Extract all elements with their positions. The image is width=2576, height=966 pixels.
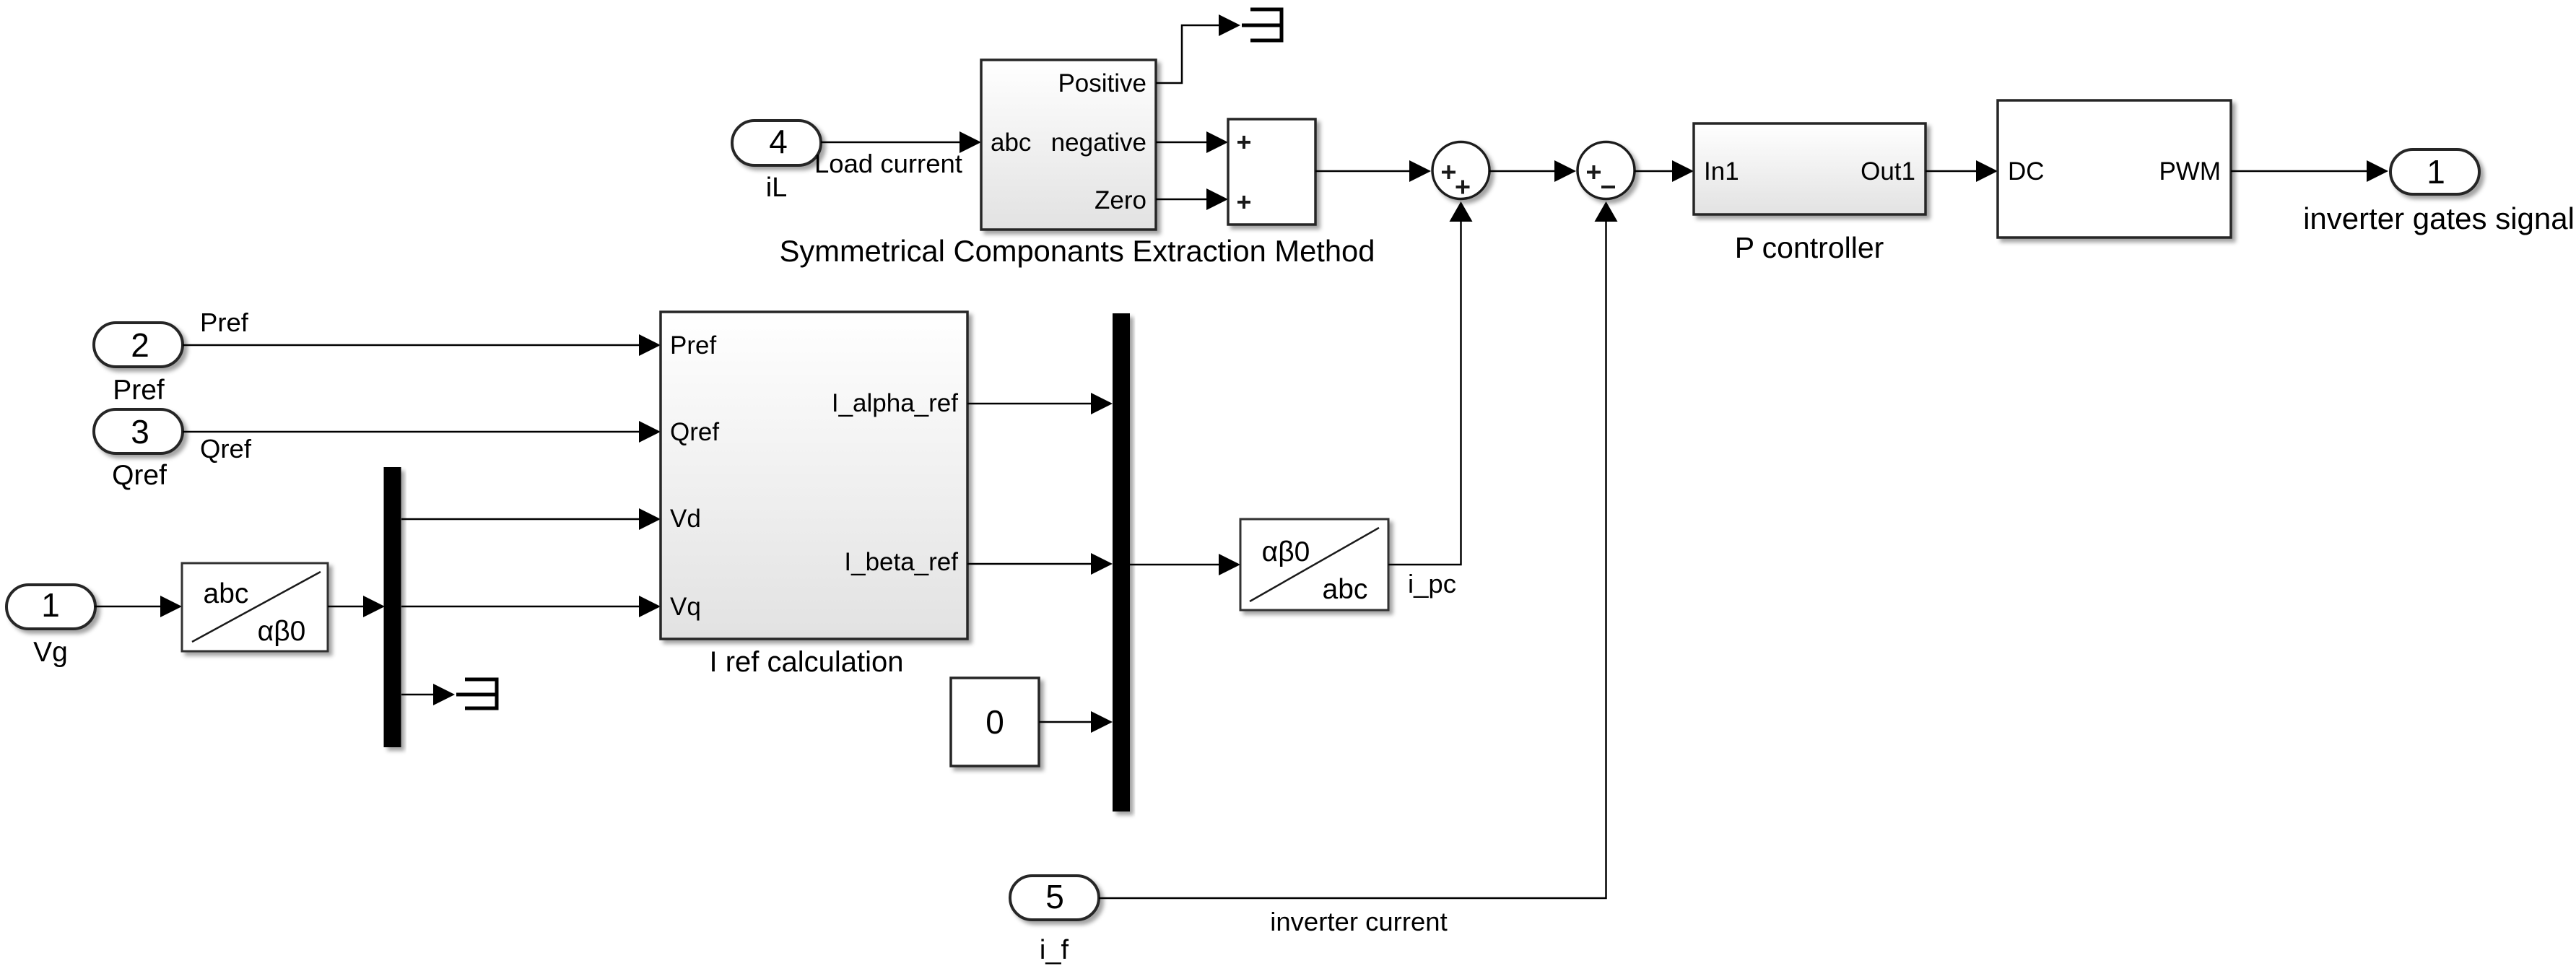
wire Positive to terminator bbox=[1156, 14, 1240, 83]
subsystem P controller bbox=[1694, 123, 1926, 264]
outport 1 (inverter gates signal) bbox=[2303, 149, 2575, 235]
svg-text:negative: negative bbox=[1051, 129, 1146, 157]
svg-text:PWM: PWM bbox=[2159, 157, 2221, 186]
wire demux to terminator 2 bbox=[401, 684, 455, 705]
svg-text:In1: In1 bbox=[1704, 157, 1739, 186]
svg-text:inverter current: inverter current bbox=[1270, 907, 1447, 936]
svg-text:Positive: Positive bbox=[1058, 69, 1146, 97]
svg-text:Qref: Qref bbox=[200, 434, 252, 464]
subsystem Symmetrical Componants Extraction Method bbox=[780, 60, 1375, 268]
svg-text:i_pc: i_pc bbox=[1408, 569, 1456, 599]
wire Vg to abc-alphabeta0 bbox=[95, 596, 182, 617]
mux bar bbox=[1113, 313, 1130, 811]
transform block abc to alphabeta0 bbox=[182, 563, 328, 651]
inport 1 (Vg) bbox=[6, 585, 95, 668]
wire sum circle 1 to sum circle 2 bbox=[1489, 160, 1577, 182]
svg-text:αβ0: αβ0 bbox=[258, 616, 306, 647]
transform block alphabeta0 to abc, label i_pc bbox=[1240, 519, 1456, 610]
svg-text:αβ0: αβ0 bbox=[1262, 536, 1310, 567]
terminator (demux third output) bbox=[456, 679, 497, 708]
wire sum circle 2 to P controller bbox=[1635, 160, 1694, 182]
svg-text:DC: DC bbox=[2008, 157, 2045, 186]
svg-text:Qref: Qref bbox=[670, 418, 719, 446]
sum circle 1 (+ +) bbox=[1432, 142, 1489, 199]
svg-text:Pref: Pref bbox=[200, 308, 249, 337]
inport 4 (iL) bbox=[732, 121, 821, 203]
svg-text:5: 5 bbox=[1045, 878, 1064, 915]
svg-text:I_alpha_ref: I_alpha_ref bbox=[832, 389, 958, 417]
inport 3 (Qref) bbox=[94, 409, 183, 491]
svg-text:abc: abc bbox=[991, 129, 1031, 157]
svg-text:abc: abc bbox=[1323, 574, 1368, 605]
svg-text:1: 1 bbox=[2427, 153, 2445, 191]
svg-text:abc: abc bbox=[204, 578, 249, 609]
wire sum to sum circle 1 bbox=[1315, 160, 1431, 182]
terminator (top) bbox=[1242, 9, 1282, 40]
wire i_pc to sum circle 1 bottom bbox=[1388, 201, 1473, 565]
sum block (rect ++) bbox=[1228, 119, 1315, 225]
svg-text:i_f: i_f bbox=[1040, 935, 1069, 965]
svg-text:1: 1 bbox=[41, 586, 60, 624]
svg-text:Zero: Zero bbox=[1095, 186, 1146, 214]
svg-text:Pref: Pref bbox=[670, 331, 716, 360]
svg-text:Load current: Load current bbox=[814, 149, 962, 178]
wire Zero to sum bbox=[1156, 188, 1228, 210]
wire demux to Vd bbox=[401, 508, 661, 530]
wire I_beta_ref to mux bbox=[967, 553, 1113, 575]
svg-text:0: 0 bbox=[985, 703, 1004, 741]
svg-text:Vd: Vd bbox=[670, 505, 701, 533]
svg-text:inverter gates signal: inverter gates signal bbox=[2303, 201, 2575, 235]
constant 0 bbox=[951, 678, 1039, 766]
svg-text:I_beta_ref: I_beta_ref bbox=[844, 548, 958, 576]
wire iL to SCEM abc, label Load current bbox=[814, 131, 981, 178]
subsystem I ref calculation bbox=[661, 312, 967, 678]
sum circle 2 (+ -) bbox=[1578, 142, 1635, 199]
wire PWM to outport bbox=[2231, 160, 2388, 182]
svg-text:Vq: Vq bbox=[670, 593, 701, 621]
svg-text:Pref: Pref bbox=[113, 375, 165, 406]
demux bar bbox=[384, 467, 401, 747]
subsystem DC-PWM bbox=[1998, 100, 2231, 238]
wire demux to Vq bbox=[401, 596, 661, 617]
wire Qref to I ref calculation, label Qref bbox=[183, 421, 661, 464]
svg-text:3: 3 bbox=[131, 413, 149, 451]
svg-text:4: 4 bbox=[769, 123, 788, 160]
svg-text:Out1: Out1 bbox=[1861, 157, 1915, 186]
wire I_alpha_ref to mux bbox=[967, 393, 1113, 414]
svg-text:I ref calculation: I ref calculation bbox=[709, 646, 903, 678]
wire Pref to I ref calculation, label Pref bbox=[183, 308, 661, 356]
svg-text:2: 2 bbox=[131, 326, 149, 364]
wire negative to sum bbox=[1156, 131, 1228, 153]
svg-text:Vg: Vg bbox=[33, 637, 68, 668]
svg-text:Symmetrical Componants Extract: Symmetrical Componants Extraction Method bbox=[780, 234, 1375, 268]
svg-text:P controller: P controller bbox=[1735, 231, 1884, 264]
wire mux to alphabeta0-abc bbox=[1130, 554, 1240, 575]
inport 5 (i_f) bbox=[1010, 876, 1099, 965]
inport 2 (Pref) bbox=[94, 323, 183, 406]
wire Out1 to DC bbox=[1926, 160, 1998, 182]
svg-text:iL: iL bbox=[766, 173, 788, 203]
svg-text:Qref: Qref bbox=[112, 460, 167, 491]
wire i_f to sum circle 2 bottom, label inverter current bbox=[1099, 201, 1618, 936]
wire abc-alphabeta0 to demux bbox=[328, 596, 385, 617]
wire constant 0 to mux bbox=[1039, 711, 1113, 733]
